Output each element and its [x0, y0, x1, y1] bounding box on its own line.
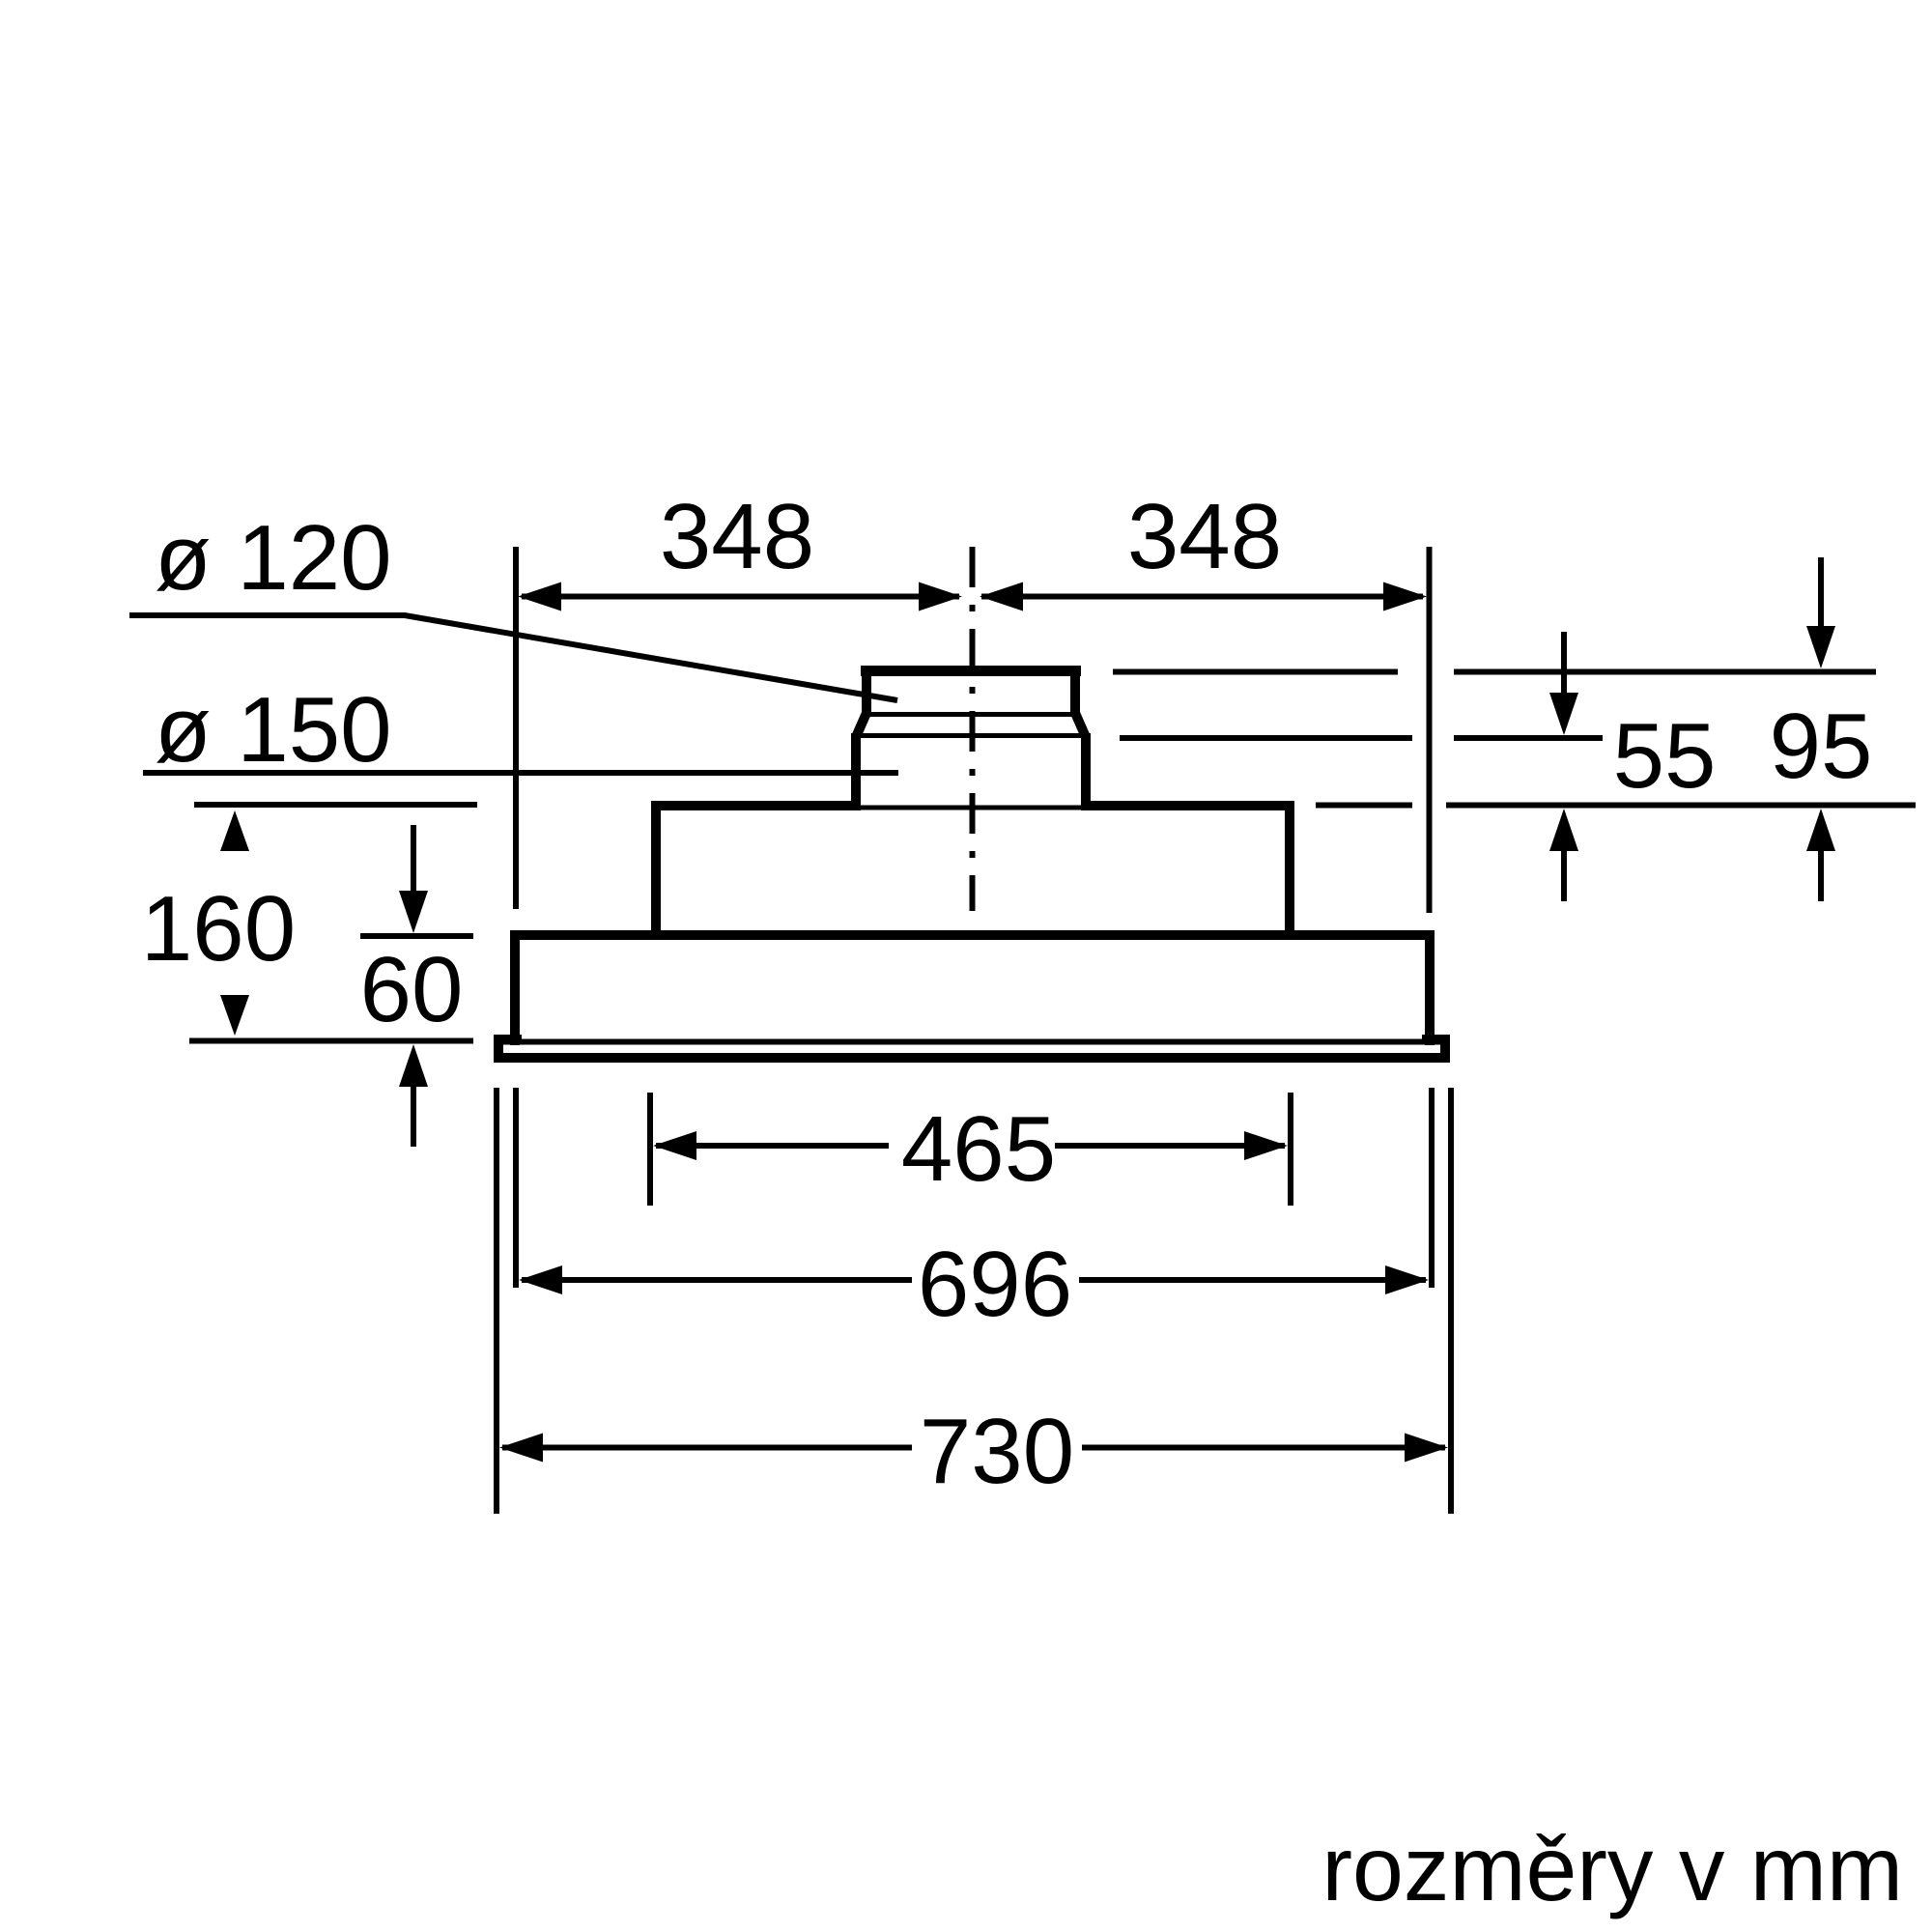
- dim 55 up arrow: [1561, 851, 1567, 901]
- collar left wall (ø150): [851, 733, 861, 810]
- svg-text:rozměry v mm: rozměry v mm: [1321, 1818, 1903, 1920]
- dim line 348 right: [981, 594, 1423, 600]
- collar right wall (ø150): [1081, 733, 1091, 810]
- svg-text:730: 730: [920, 1400, 1074, 1503]
- flare right: [1075, 713, 1086, 737]
- dim 60 down arrow: [411, 825, 416, 895]
- svg-text:95: 95: [1770, 695, 1873, 798]
- flange right lip cap: [1422, 1035, 1450, 1039]
- svg-text:160: 160: [141, 877, 296, 980]
- svg-text:696: 696: [918, 1233, 1072, 1336]
- dim 55 down arrow: [1561, 632, 1567, 696]
- svg-text:465: 465: [901, 1097, 1056, 1201]
- dim 160 arrows: [220, 810, 249, 851]
- ref line 95 top: [1113, 669, 1876, 675]
- under-collar line: [856, 806, 1086, 810]
- extension line 730 left: [494, 1088, 499, 1514]
- svg-text:348: 348: [1127, 485, 1282, 588]
- flange bottom plate: [494, 1053, 1450, 1063]
- svg-text:60: 60: [360, 938, 464, 1041]
- step top right: [1081, 801, 1294, 810]
- ref line bottom left: [189, 1038, 473, 1044]
- step top left: [651, 801, 861, 810]
- body left wall: [510, 930, 520, 1045]
- extension line 730 right: [1448, 1088, 1454, 1514]
- body top line: [510, 930, 1435, 940]
- ref line step right: [1316, 803, 1916, 809]
- svg-text:348: 348: [660, 485, 814, 588]
- mid step left wall: [651, 801, 661, 935]
- center line (dash-dot): [970, 547, 976, 911]
- leader ø120: [129, 615, 897, 700]
- dim line 696: [522, 1277, 1426, 1283]
- collar mid line: [851, 733, 1091, 738]
- ref line 55 top: [1120, 735, 1603, 741]
- flange left lip: [494, 1035, 503, 1061]
- ref line 60 top: [360, 933, 473, 939]
- body bottom line: [494, 1039, 1450, 1045]
- leader ø150: [143, 770, 898, 776]
- dim 95 down arrow: [1818, 557, 1824, 630]
- ref line 160 top: [194, 802, 477, 808]
- extension line right 348: [1427, 547, 1433, 913]
- duct stub right wall: [1070, 667, 1080, 716]
- svg-text:ø 150: ø 150: [155, 678, 391, 781]
- extension line left 348: [513, 547, 519, 909]
- extension line 465 right: [1288, 1093, 1293, 1206]
- stub base line: [862, 712, 1080, 717]
- dim line 730: [502, 1445, 1445, 1451]
- dim 60 up arrow: [411, 1085, 416, 1147]
- flange left lip cap: [494, 1035, 522, 1039]
- dim line 348 left: [522, 594, 959, 600]
- svg-text:ø 120: ø 120: [155, 506, 391, 610]
- extension line 696 right: [1429, 1088, 1435, 1288]
- extension line 465 left: [647, 1093, 653, 1206]
- duct stub top edge (ø120): [861, 666, 1081, 676]
- flange right lip: [1440, 1035, 1450, 1061]
- dim line 465: [656, 1143, 1285, 1149]
- mid step right wall: [1285, 801, 1294, 935]
- svg-text:55: 55: [1613, 704, 1717, 808]
- body right wall: [1425, 930, 1435, 1045]
- flare left: [856, 713, 867, 737]
- duct stub left wall: [862, 667, 871, 716]
- dim 95 up arrow: [1818, 851, 1824, 901]
- extension line 696 left: [513, 1088, 519, 1288]
